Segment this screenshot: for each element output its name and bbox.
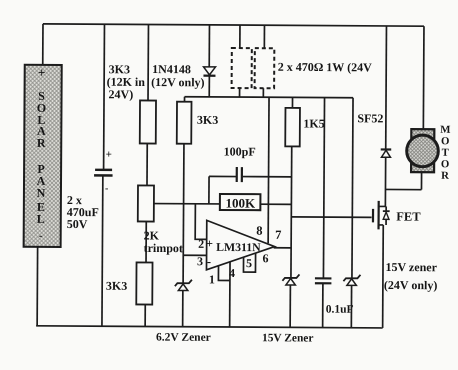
svg-text:3: 3: [197, 254, 203, 268]
wire motor top lead: [422, 26, 425, 129]
svg-text:3K3: 3K3: [197, 113, 218, 127]
diode D5 SF52: [357, 111, 391, 157]
svg-text:N: N: [37, 186, 46, 200]
wire capacitor C3 top lead: [323, 98, 324, 278]
svg-text:-: -: [39, 230, 43, 242]
wire bottom ground rail: [36, 326, 382, 328]
svg-text:O: O: [441, 158, 449, 170]
wire pin 4 to ground rail: [229, 262, 231, 327]
svg-text:7: 7: [275, 228, 281, 242]
pin 2 label: [198, 237, 204, 251]
wire zener D2 anode lead: [182, 291, 184, 327]
svg-text:(12V only): (12V only): [151, 75, 205, 89]
transistor Q1 FET: [373, 201, 421, 230]
svg-text:FET: FET: [396, 210, 421, 224]
svg-text:24V): 24V): [109, 87, 134, 101]
resistor R3 3K3: [106, 262, 153, 304]
trimpot VR1 2K: [138, 185, 184, 255]
svg-text:1K5: 1K5: [303, 116, 324, 130]
svg-text:+: +: [38, 65, 46, 80]
wire capacitor C1 bottom lead: [101, 176, 104, 326]
resistor R2 3K3: [177, 102, 219, 144]
svg-text:(24V only): (24V only): [384, 278, 438, 292]
wire pin 5 to pin 6 strap: [243, 253, 255, 272]
pin 5 label: [246, 256, 252, 270]
wire zener D4 cathode lead: [352, 98, 353, 278]
capacitor C2 100pF: [209, 144, 292, 204]
pin 8 label: [256, 224, 262, 238]
svg-text:SF52: SF52: [357, 111, 383, 125]
svg-text:6: 6: [263, 251, 269, 265]
svg-text:100pF: 100pF: [224, 144, 256, 158]
wire gate drive: [291, 216, 371, 218]
svg-text:100K: 100K: [226, 195, 257, 210]
wire resistor R1 top lead: [147, 25, 149, 101]
svg-text:LM311N: LM311N: [216, 240, 261, 254]
svg-text:50V: 50V: [67, 217, 88, 231]
svg-text:6.2V Zener: 6.2V Zener: [156, 332, 211, 344]
wire capacitor C3 bottom lead: [322, 284, 324, 328]
svg-text:-: -: [207, 254, 211, 268]
zener D3 15V gate protection: [262, 274, 314, 344]
svg-text:R: R: [37, 136, 46, 150]
resistor R5 470R dashed option: [255, 25, 373, 98]
wire solar panel minus lead: [36, 247, 38, 326]
resistor R6 1K5: [285, 108, 325, 147]
wire output node vertical: [290, 146, 293, 277]
svg-text:1: 1: [209, 272, 215, 286]
wire FET source to ground rail: [382, 225, 385, 328]
svg-text:0.1uF: 0.1uF: [326, 304, 354, 316]
wire pin 1 to pin 4 ground: [218, 265, 230, 280]
wire internal supply rail: [185, 97, 353, 98]
svg-text:3K3: 3K3: [106, 279, 127, 293]
wire resistor R2 top lead: [184, 97, 186, 102]
svg-text:5: 5: [246, 256, 252, 270]
pin 7 label: [275, 228, 281, 242]
wire resistor R6 top lead: [291, 97, 293, 107]
svg-text:+: +: [206, 236, 213, 250]
wire trimpot to R3: [145, 221, 147, 262]
wire capacitor C1 top lead: [103, 24, 106, 169]
svg-text:+: +: [106, 149, 112, 161]
wire motor return to drain node: [385, 188, 421, 190]
capacitor C3 0.1uF: [315, 278, 354, 315]
svg-text:15V Zener: 15V Zener: [262, 332, 313, 344]
resistor R7 100K feedback: [220, 194, 292, 211]
wire motor bottom lead: [420, 172, 422, 189]
wire zener D3 anode lead: [289, 285, 291, 327]
wire op-amp output pin 7: [274, 247, 291, 249]
svg-text:R: R: [441, 170, 449, 182]
motor M1: [407, 124, 451, 182]
resistor R1 3K3 (12K in 24V): [106, 62, 156, 143]
svg-text:8: 8: [256, 224, 262, 238]
op-amp U1 LM311N: [206, 220, 275, 270]
wire diode D5 cathode from top rail: [385, 26, 388, 149]
pin 3 label: [197, 254, 203, 268]
capacitor C1 2x470uF 50V: [67, 149, 113, 232]
wire diode D1 anode lead: [208, 25, 210, 67]
svg-text:M: M: [440, 124, 450, 136]
solar panel PV1: [24, 65, 62, 247]
wire solar panel plus lead: [42, 24, 44, 65]
zener D2 6.2V: [156, 280, 211, 344]
pin 4 label: [229, 266, 235, 280]
wire zener D4 anode lead: [350, 285, 352, 327]
wire R2 to zener D2 reference node: [182, 144, 185, 283]
wire diode D1 cathode lead: [208, 76, 210, 97]
diode D1 1N4148 (12V only): [151, 62, 215, 89]
svg-text:15V zener: 15V zener: [385, 260, 437, 274]
svg-text:O: O: [441, 135, 449, 147]
wire D5 anode to FET drain: [379, 157, 386, 206]
svg-text:2: 2: [198, 237, 204, 251]
pin 1 label: [209, 272, 215, 286]
wire op-amp pin 8 supply: [267, 97, 270, 243]
svg-text:T: T: [442, 147, 450, 159]
wire op-amp pin 3 stub: [183, 254, 206, 256]
svg-text:-: -: [105, 183, 108, 194]
resistor R4 470R dashed option: [232, 25, 252, 97]
svg-text:2 x 470Ω 1W (24V: 2 x 470Ω 1W (24V: [278, 60, 372, 75]
pin 6 label: [263, 251, 269, 265]
wire top positive rail: [43, 24, 424, 26]
wire R1 to trimpot: [146, 143, 148, 185]
wire R3 bottom lead: [144, 304, 146, 326]
zener D4 15V (24V only): [343, 260, 437, 293]
wire trimpot wiper to node A: [154, 203, 220, 205]
svg-text:L: L: [37, 212, 45, 226]
wire op-amp pin 2 input: [195, 204, 207, 240]
svg-text:trimpot: trimpot: [144, 241, 183, 255]
